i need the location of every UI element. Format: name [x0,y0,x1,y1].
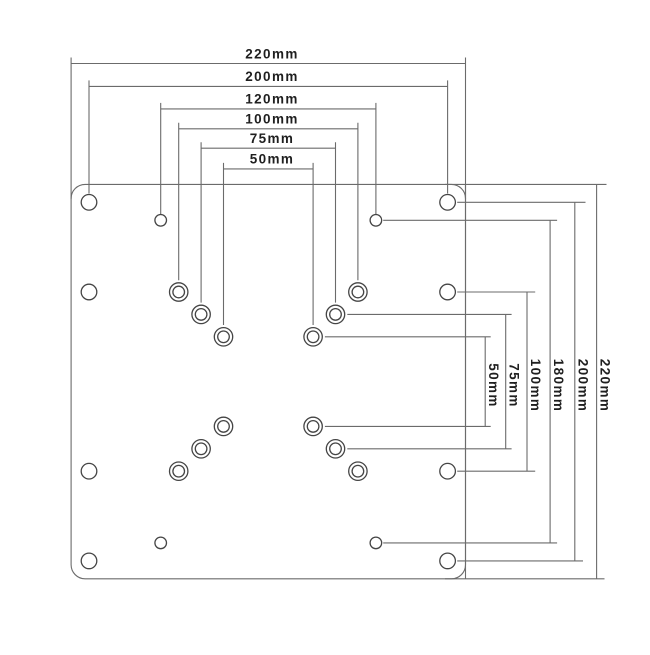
svg-text:50mm: 50mm [250,152,295,167]
svg-text:220mm: 220mm [597,359,612,413]
svg-text:180mm: 180mm [551,359,566,413]
svg-text:220mm: 220mm [245,46,299,61]
svg-text:75mm: 75mm [507,363,522,408]
svg-text:120mm: 120mm [245,92,299,107]
svg-text:100mm: 100mm [245,112,299,127]
svg-text:50mm: 50mm [486,363,501,408]
svg-text:75mm: 75mm [250,131,295,146]
svg-text:200mm: 200mm [576,359,591,413]
svg-text:100mm: 100mm [528,359,543,413]
svg-text:200mm: 200mm [245,69,299,84]
